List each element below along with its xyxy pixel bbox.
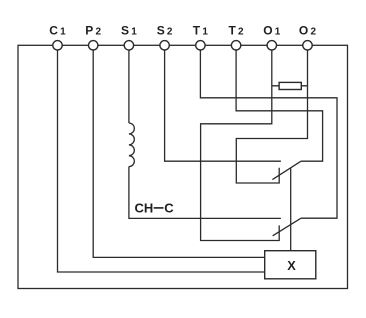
coil X box bbox=[265, 251, 316, 279]
svg-text:X: X bbox=[287, 258, 296, 273]
wire T1 run bbox=[200, 50, 337, 218]
terminal C1 bbox=[53, 41, 62, 50]
wire S1 lower run bbox=[129, 167, 281, 219]
wire P2 vertical bbox=[93, 50, 265, 257]
svg-text:CH: CH bbox=[135, 201, 154, 216]
resistor R body bbox=[279, 82, 301, 89]
wire T2 run bbox=[236, 50, 323, 161]
terminal O1 bbox=[267, 41, 276, 50]
terminal T2 bbox=[231, 41, 240, 50]
terminal P2 bbox=[89, 41, 98, 50]
wire S2 run bbox=[165, 50, 281, 161]
terminal S2 bbox=[160, 41, 169, 50]
terminal S1 bbox=[124, 41, 133, 50]
label CH-C dash bbox=[154, 207, 164, 209]
svg-text:C: C bbox=[164, 201, 174, 216]
switch arm lower bbox=[273, 218, 301, 236]
terminal T1 bbox=[196, 41, 205, 50]
wire O1 run bbox=[201, 50, 280, 241]
wire C1 vertical bbox=[58, 50, 265, 272]
enclosure frame bbox=[18, 45, 348, 288]
wire O2 run bbox=[236, 50, 307, 183]
wire arm to coil X bbox=[290, 168, 292, 251]
wire S1 upper vertical bbox=[128, 50, 130, 123]
resistor R wire bbox=[272, 85, 308, 87]
inductor CH-C coil bbox=[129, 123, 134, 167]
terminal O2 bbox=[303, 41, 312, 50]
switch arm upper bbox=[272, 161, 301, 179]
